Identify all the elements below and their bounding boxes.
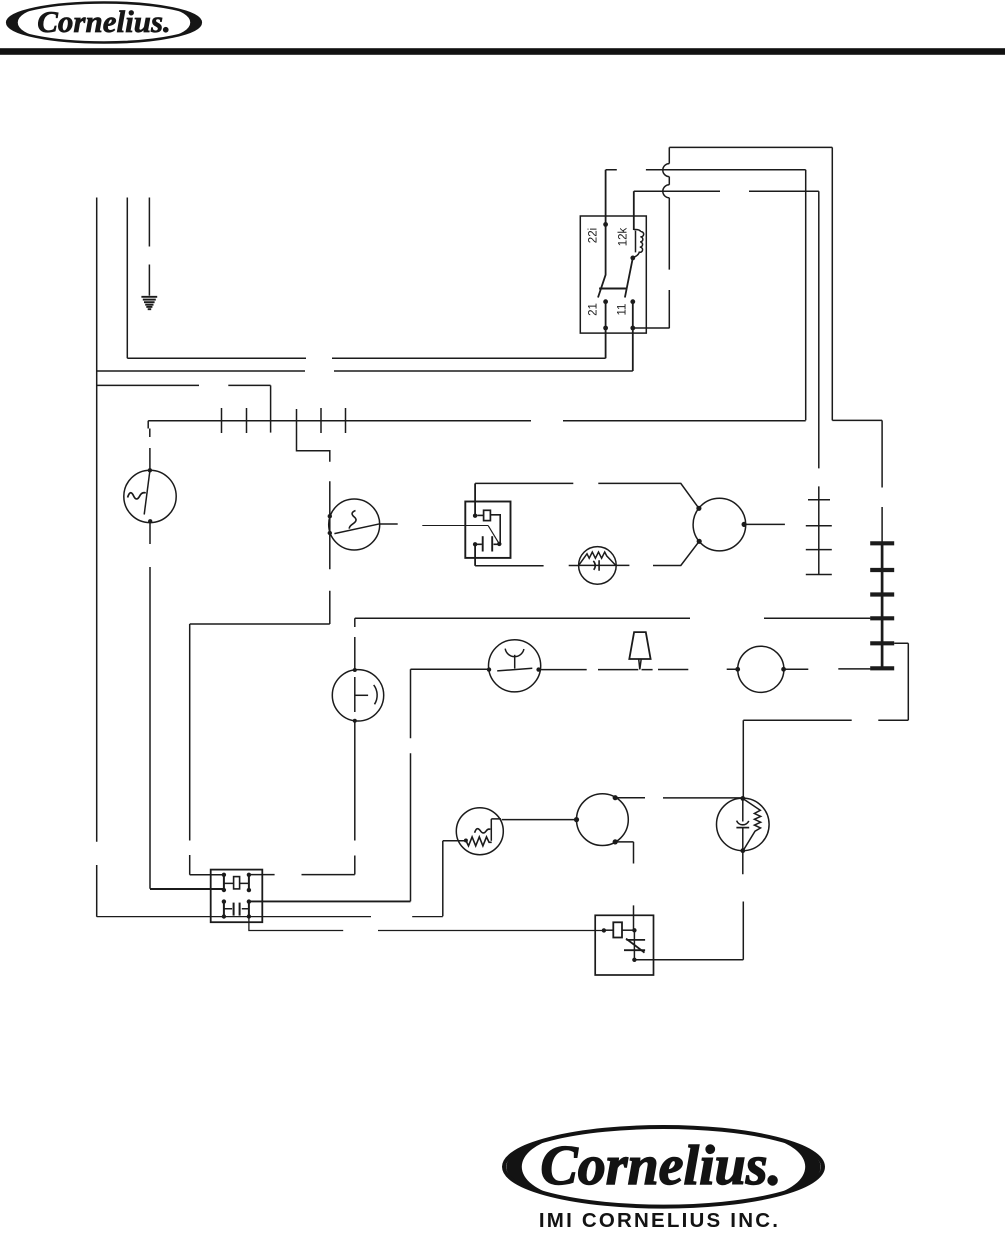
buzzer LS1 xyxy=(629,632,650,669)
relay K1 pin 21 xyxy=(603,299,608,358)
svg-text:21: 21 xyxy=(588,303,600,316)
relay K1 link bar xyxy=(599,288,627,290)
relay K1 pin 22 xyxy=(598,170,608,298)
header rule bar xyxy=(0,48,1005,55)
wire y385 branch xyxy=(97,384,271,386)
wire C1 bottom drop xyxy=(742,851,745,960)
node CB1 pins xyxy=(222,873,251,919)
connector CB1 top contact xyxy=(224,875,249,890)
wire y191 (coil to right) xyxy=(634,191,819,490)
svg-text:11: 11 xyxy=(617,304,629,316)
switch S1 (sensor circle) xyxy=(328,499,380,550)
motor M3 (plain circle) xyxy=(735,646,786,692)
wire K row (y618) xyxy=(355,617,871,619)
wire bus 11 to relay (y371) xyxy=(97,370,633,372)
connector CB3 (bold strip) xyxy=(870,543,894,668)
relay K1 box xyxy=(580,216,646,333)
wire ground lead xyxy=(148,198,150,296)
terminal strip TB1 xyxy=(148,408,806,433)
wire R2 out to C1 xyxy=(634,959,743,961)
relay K1 coil 12k xyxy=(625,191,644,297)
wire K-lamp chain vertical xyxy=(354,618,356,874)
wire thermostat chain vertical xyxy=(442,841,444,917)
wire S2 left lead xyxy=(443,840,466,842)
wire pin11 exit to x669 xyxy=(634,327,670,329)
wire S1 to relay R1 xyxy=(380,523,398,525)
wire strip tick step to S xyxy=(297,409,330,624)
motor M1 (compressor) xyxy=(693,498,747,551)
wire CB to Y drop xyxy=(249,900,411,902)
relay R2 box xyxy=(595,915,653,975)
wire bus 21 to relay (y358) xyxy=(127,357,605,359)
wire into CB top-left xyxy=(190,874,224,876)
wire AC source lead bottom xyxy=(149,523,151,889)
svg-text:22i: 22i xyxy=(588,228,600,243)
source B1 (AC) xyxy=(124,468,176,523)
wire strip right corner xyxy=(832,420,882,543)
svg-text:12k: 12k xyxy=(618,227,630,246)
motor M2 xyxy=(574,794,628,846)
ground xyxy=(141,297,157,309)
wire hop vertical x669 xyxy=(668,147,670,328)
wire M2 top to RC xyxy=(615,797,743,799)
wire M1 right lead xyxy=(744,523,785,525)
wire Y row (y669) xyxy=(411,668,871,671)
wire R1 top to motor M1 xyxy=(475,483,699,508)
svg-text:Cornelius.: Cornelius. xyxy=(540,1135,781,1197)
wire into CB mid-left xyxy=(150,888,224,890)
wire R1 bottom to overload to M1 xyxy=(475,541,699,566)
relay K1 pin 11 xyxy=(630,299,635,371)
svg-text:Cornelius.: Cornelius. xyxy=(37,4,171,39)
wire S2 to M2 xyxy=(491,818,576,821)
capacitor C1 with bleed resistor xyxy=(717,796,770,853)
wire CB to K-lamp drop xyxy=(249,874,355,876)
lamp DS2 xyxy=(487,640,541,692)
wire AC source lead top xyxy=(149,429,151,471)
wire hop bumps xyxy=(663,164,670,198)
relay R1 box xyxy=(465,502,510,558)
wire L1 left rail xyxy=(96,198,98,917)
wire CB down then right (to relay R2) xyxy=(249,917,604,931)
Cornelius logo (footer) xyxy=(504,1127,823,1207)
wire y170 (pin22 to right) xyxy=(606,170,806,421)
lamp DS1 xyxy=(332,668,383,723)
wire Y chain vertical xyxy=(410,669,412,901)
wire M2 bottom to relay R2 xyxy=(615,842,633,930)
connector CB2 (4 ticks) xyxy=(806,490,832,575)
connector CB1 box xyxy=(211,870,263,923)
connector CB1 bottom contacts xyxy=(224,902,249,917)
wire thin common y916.6 xyxy=(97,916,443,918)
overload OL1 xyxy=(579,547,617,585)
wire L2 second rail xyxy=(126,198,128,359)
wire tall tick drop xyxy=(270,385,272,432)
wire thin into R1 xyxy=(422,525,488,527)
relay R2 internals xyxy=(602,922,645,962)
thermostat S2 xyxy=(456,808,503,855)
wire top loop (y147) xyxy=(669,147,832,420)
wire CB3 tick5 loop to RC xyxy=(743,643,908,798)
svg-text:IMI CORNELIUS INC.: IMI CORNELIUS INC. xyxy=(539,1209,780,1232)
Cornelius logo (top left) xyxy=(7,3,201,43)
relay R1 internals xyxy=(473,483,502,565)
wire y624 to left drop xyxy=(190,624,330,875)
